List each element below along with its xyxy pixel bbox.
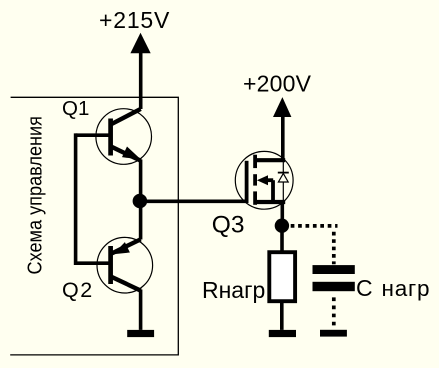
svg-text:Q2: Q2 <box>62 278 94 302</box>
dotted wire: corner down to capacitor (vertical) <box>332 232 336 264</box>
wire: Q2 base lead <box>76 261 111 265</box>
dotted wire: node B to capacitor (horizontal) <box>291 224 338 228</box>
supply +215V arrow <box>130 33 150 53</box>
ground (under Q2) <box>127 330 154 337</box>
node B junction dot <box>275 219 289 233</box>
svg-text:Q3: Q3 <box>212 212 245 239</box>
supply +200V arrow <box>273 97 291 117</box>
capacitor Cnagr plate 1 <box>313 265 355 274</box>
svg-text:Схема управления: Схема управления <box>23 116 46 275</box>
wire: Q1 emitter to node A to Q2 emitter <box>139 160 143 240</box>
svg-text:C: C <box>356 275 373 301</box>
wire: +215V to Q1 collector <box>139 50 143 109</box>
wire: node A to Q3 gate <box>140 200 247 204</box>
transistor Q2 (PNP) <box>97 237 153 293</box>
wire: Q1 base lead <box>76 133 111 137</box>
svg-text:Rнагр: Rнагр <box>202 277 265 303</box>
svg-text:+200V: +200V <box>243 71 312 97</box>
svg-text:нагр: нагр <box>382 276 431 301</box>
svg-text:Q1: Q1 <box>62 97 89 120</box>
wire: +200V to Q3 drain <box>281 112 285 161</box>
ground (under resistor) <box>269 330 296 337</box>
wire: Q3 source to node B <box>280 203 284 226</box>
wire: resistor to ground <box>280 303 284 330</box>
resistor Rnagr <box>269 252 295 301</box>
ground bar (under capacitor) <box>320 330 347 337</box>
control-circuit box (open left side) <box>10 97 178 355</box>
wire: base bus vertical <box>74 133 78 265</box>
wire: node B to resistor <box>280 226 284 252</box>
node A junction dot <box>133 194 148 209</box>
body diode of Q3 <box>282 162 284 173</box>
svg-text:+215V: +215V <box>99 7 170 33</box>
wire: Q2 collector to ground <box>139 290 143 330</box>
MOSFET Q3 <box>235 151 293 209</box>
dotted wire: capacitor to ground bar <box>332 297 336 329</box>
transistor Q1 (NPN) <box>96 109 152 165</box>
capacitor Cnagr plate 2 <box>313 282 355 291</box>
